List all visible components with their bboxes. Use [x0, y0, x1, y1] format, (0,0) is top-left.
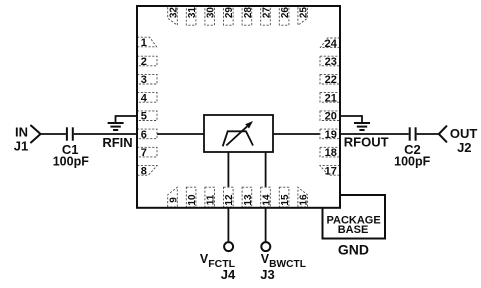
- left column pin boxes 1-8: [137, 37, 157, 175]
- pin 32: [168, 6, 178, 25]
- svg-text:30: 30: [206, 7, 217, 19]
- svg-text:100pF: 100pF: [53, 154, 89, 168]
- svg-text:10: 10: [187, 194, 198, 206]
- svg-text:19: 19: [325, 129, 337, 141]
- connector J2 chevron: [439, 126, 447, 142]
- pin 23: [320, 56, 340, 66]
- svg-text:32: 32: [169, 7, 180, 19]
- svg-text:18: 18: [325, 147, 337, 159]
- pin 17: [320, 166, 340, 176]
- pin 9: [168, 187, 178, 207]
- connector J1 chevron: [31, 126, 41, 143]
- connector J3 circle: [261, 242, 270, 251]
- pin 2: [137, 56, 157, 66]
- svg-text:100pF: 100pF: [394, 154, 430, 168]
- svg-text:24: 24: [325, 38, 338, 50]
- svg-text:5: 5: [141, 111, 147, 123]
- wire pin14 to J3: [265, 152, 267, 243]
- package outline stroke: [137, 6, 340, 208]
- pin 19: [320, 129, 340, 139]
- pin numbers left column: [141, 37, 148, 177]
- wire center box to OUT chevron (RFOUT path): [273, 133, 409, 135]
- pin 29: [224, 6, 234, 25]
- ground symbol left: [108, 123, 124, 130]
- pin 12: [224, 187, 234, 207]
- svg-text:RFOUT: RFOUT: [344, 135, 389, 150]
- pin 5: [137, 111, 157, 121]
- svg-text:14: 14: [261, 194, 272, 206]
- pin 26: [279, 6, 289, 25]
- pin 24: [320, 38, 340, 48]
- pin 20: [320, 111, 340, 121]
- svg-text:21: 21: [325, 92, 337, 104]
- pin 10: [186, 187, 196, 207]
- pin 27: [261, 6, 271, 25]
- svg-text:6: 6: [141, 129, 147, 141]
- svg-text:16: 16: [299, 194, 310, 206]
- svg-text:28: 28: [243, 7, 254, 19]
- wire IN to center box (RFIN path): [40, 133, 66, 135]
- pin 18: [320, 147, 340, 157]
- svg-text:25: 25: [299, 7, 310, 19]
- pin 11: [205, 187, 215, 207]
- ground stub at pin 5: [116, 115, 138, 123]
- pin 7: [137, 147, 157, 157]
- pin 14: [261, 187, 271, 207]
- wire pin12 to J4: [227, 152, 229, 243]
- pin 15: [279, 187, 289, 207]
- pin 31: [186, 6, 196, 25]
- svg-text:2: 2: [141, 56, 147, 68]
- pin 16: [298, 187, 308, 207]
- svg-text:8: 8: [141, 165, 147, 177]
- package outline U1: [137, 6, 340, 208]
- svg-text:11: 11: [206, 194, 217, 205]
- ground symbol right: [354, 123, 370, 130]
- capacitor C2: [410, 127, 416, 140]
- svg-text:13: 13: [243, 194, 254, 206]
- pin 25: [298, 6, 308, 25]
- pin 30: [205, 6, 215, 25]
- svg-text:3: 3: [141, 74, 147, 86]
- pin numbers top row (rotated): [169, 7, 310, 19]
- connector J4 circle: [224, 242, 233, 251]
- right column pin boxes 24-17: [320, 38, 340, 175]
- package base box: [323, 195, 386, 239]
- tunable filter block: [204, 115, 273, 152]
- svg-text:20: 20: [325, 111, 337, 123]
- svg-text:J2: J2: [457, 140, 471, 155]
- wire C1 to package: [74, 133, 204, 135]
- capacitor C1: [67, 127, 73, 140]
- top row pin boxes 32-25: [168, 6, 308, 25]
- pin 8: [137, 166, 157, 176]
- svg-text:23: 23: [325, 56, 337, 68]
- pin 28: [242, 6, 252, 25]
- svg-text:BASE: BASE: [338, 224, 369, 236]
- pin 1: [137, 37, 157, 47]
- pin numbers right column: [325, 38, 338, 178]
- bottom row pin boxes 9-16: [168, 187, 308, 207]
- svg-text:RFIN: RFIN: [102, 135, 132, 150]
- ground stub at pin 20: [340, 115, 362, 123]
- svg-text:GND: GND: [338, 241, 369, 257]
- svg-text:1: 1: [141, 37, 147, 49]
- svg-text:7: 7: [141, 147, 147, 159]
- pin 3: [137, 74, 157, 84]
- svg-text:29: 29: [224, 7, 235, 19]
- svg-text:12: 12: [224, 194, 235, 206]
- svg-text:J4: J4: [221, 267, 236, 282]
- pin 22: [320, 74, 340, 84]
- svg-text:26: 26: [280, 7, 291, 19]
- pin 6: [137, 129, 157, 139]
- svg-text:27: 27: [261, 7, 272, 19]
- pin 4: [137, 93, 157, 103]
- svg-text:J3: J3: [260, 267, 274, 282]
- svg-text:4: 4: [141, 92, 148, 104]
- svg-text:J1: J1: [14, 139, 28, 154]
- svg-text:17: 17: [325, 165, 337, 177]
- pin 21: [320, 93, 340, 103]
- svg-text:31: 31: [187, 7, 198, 19]
- svg-text:9: 9: [169, 197, 180, 203]
- pin numbers bottom row (rotated): [169, 194, 310, 206]
- svg-text:15: 15: [280, 194, 291, 206]
- pin 13: [242, 187, 252, 207]
- svg-text:IN: IN: [15, 125, 28, 140]
- svg-text:OUT: OUT: [450, 126, 478, 141]
- svg-text:22: 22: [325, 74, 337, 86]
- wire C2 to OUT: [417, 133, 439, 135]
